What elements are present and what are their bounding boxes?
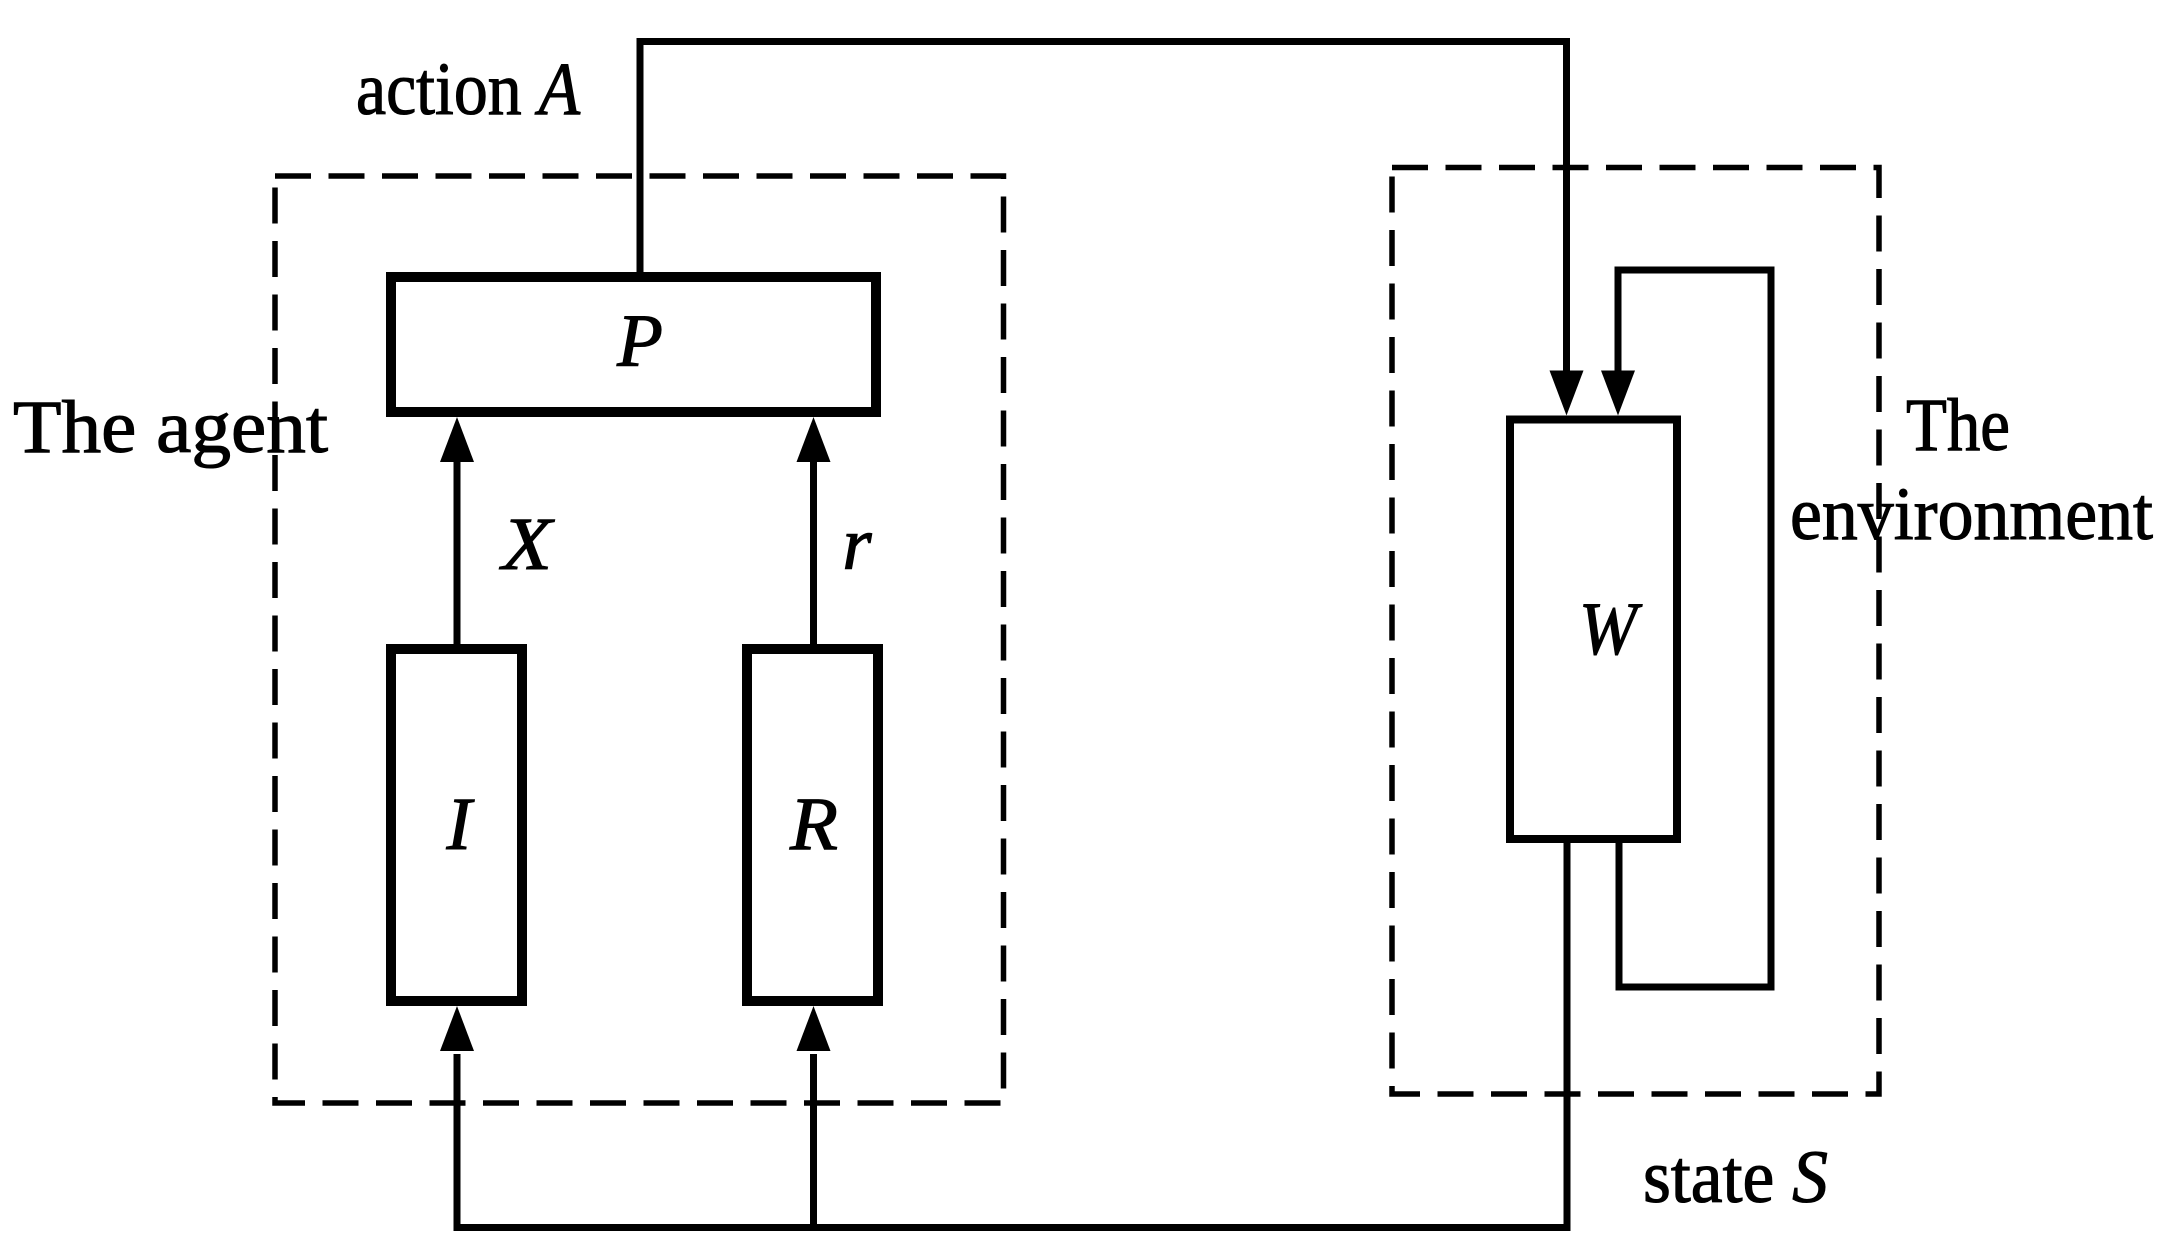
box P — [391, 277, 876, 412]
svg-text:state S: state S — [1643, 1136, 1828, 1219]
arrowhead self-loop into W top — [1601, 371, 1635, 416]
svg-text:The agent: The agent — [13, 386, 328, 469]
box I — [391, 649, 522, 1001]
svg-text:W: W — [1579, 588, 1643, 671]
wire state S: W bottom down, left along bottom bus — [457, 840, 1567, 1228]
svg-text:action A: action A — [356, 48, 581, 131]
box W — [1510, 420, 1677, 840]
arrow X wire: I top to P bottom — [454, 459, 461, 649]
arrowhead action A into W top — [1550, 371, 1584, 416]
box R — [747, 649, 878, 1001]
svg-text:r: r — [842, 503, 872, 586]
svg-text:The: The — [1906, 384, 2010, 467]
arrowhead state S into R bottom — [797, 1006, 831, 1051]
arrowhead r into P bottom — [797, 417, 831, 462]
arrowhead state S into I bottom — [440, 1006, 474, 1051]
svg-text:I: I — [446, 783, 475, 866]
svg-text:R: R — [789, 783, 838, 866]
dashed box The environment — [1392, 168, 1879, 1095]
arrowhead X into P bottom — [440, 417, 474, 462]
svg-text:X: X — [499, 503, 556, 586]
branch wire up into R bottom — [810, 1054, 817, 1228]
svg-text:environment: environment — [1790, 473, 2153, 556]
self-loop wire around W — [1618, 270, 1771, 987]
wire action A: from P top up, across, down to W top — [640, 42, 1567, 373]
dashed box The agent — [275, 176, 1004, 1103]
svg-text:P: P — [616, 300, 663, 383]
arrow r wire: R top to P bottom — [810, 459, 817, 649]
